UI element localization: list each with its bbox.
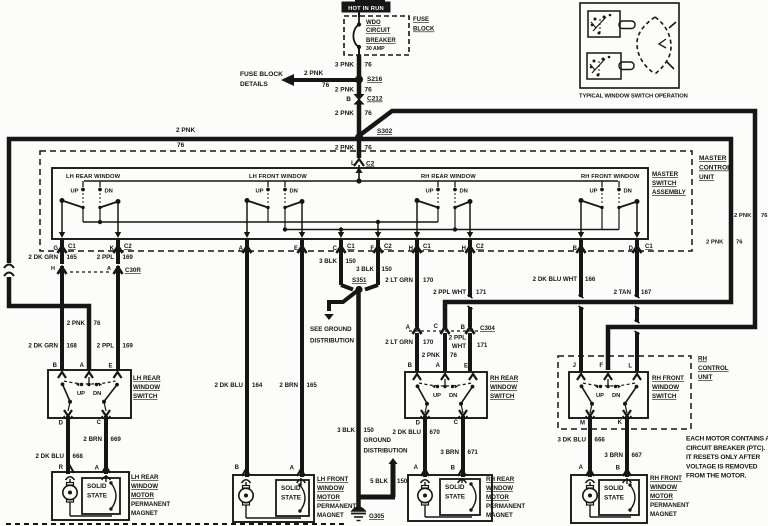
svg-text:150: 150 [397,478,408,485]
splice S302 [355,128,393,142]
svg-text:D: D [629,246,634,252]
solid state module LH rear window [82,475,120,514]
label MASTER SWITCH ASSEMBLY [652,171,687,196]
svg-text:K: K [110,246,115,252]
svg-text:G305: G305 [369,513,385,520]
svg-text:A: A [290,466,295,472]
svg-text:30 AMP: 30 AMP [366,46,385,52]
label MASTER CONTROL UNIT [699,155,731,181]
node feed junction [356,178,361,183]
svg-text:SEE GROUND: SEE GROUND [310,326,352,333]
wire 2 BRN 669 [83,416,121,474]
svg-text:MOTOR: MOTOR [317,494,340,501]
note text each motor contains a circuit breaker [686,436,768,480]
svg-text:R: R [59,465,64,471]
svg-text:F: F [599,363,603,369]
svg-text:D: D [416,421,421,427]
LH rear window switch pins D C [59,420,102,427]
svg-text:SOLID: SOLID [281,485,301,492]
wire 2 DK GRN 168 to LH rear switch pin B [28,274,77,371]
LH front window motor box [233,475,314,522]
svg-text:UP: UP [425,189,433,195]
svg-text:MAGNET: MAGNET [650,511,677,518]
svg-text:L: L [628,364,632,370]
wire 2 DK BLU 668 [35,416,83,474]
svg-text:B: B [616,466,621,472]
svg-text:SOLID: SOLID [87,483,107,490]
label 2 PNK 76 feed to LH rear switch pin A [67,320,101,327]
svg-text:2 PNK: 2 PNK [734,213,752,219]
svg-text:MASTER: MASTER [652,171,679,178]
svg-text:VOLTAGE IS REMOVED: VOLTAGE IS REMOVED [686,463,758,470]
svg-text:UNIT: UNIT [698,374,713,381]
svg-text:WINDOW: WINDOW [317,485,344,492]
wire 2 PPL 169 to LH rear switch pin E [97,274,134,371]
svg-text:J: J [573,363,576,369]
wire 2 BRN 165 from pin E to LH front motor [279,254,317,477]
svg-text:A: A [414,465,419,471]
svg-text:C2: C2 [124,244,132,250]
svg-text:GROUND: GROUND [364,437,392,444]
connector C2 pin L feed into master switch [351,140,375,181]
svg-text:DN: DN [460,189,468,195]
master pin D C1 [629,239,654,256]
svg-text:2 DK BLU: 2 DK BLU [35,453,64,460]
svg-text:2 TAN: 2 TAN [614,289,632,296]
svg-text:2 PNK: 2 PNK [304,70,323,77]
svg-text:S216: S216 [367,76,383,83]
svg-text:150: 150 [346,258,357,265]
wire 2 PNK 76 to RH rear switch pin A [422,333,458,371]
master pin K C2 [110,239,133,256]
master pin H C2 [462,239,485,256]
svg-text:B: B [408,363,413,369]
wire from HOT IN RUN to fuse block [358,12,360,17]
svg-text:76: 76 [94,320,101,327]
svg-text:2 PPL: 2 PPL [97,254,114,261]
svg-text:A: A [80,363,85,369]
power feed tag HOT IN RUN [342,0,390,12]
svg-text:150: 150 [382,266,393,273]
svg-text:76: 76 [365,145,373,152]
label 2 PNK 76 on left band [176,127,195,149]
ground bus A inside master switch [83,221,438,223]
label RH REAR WINDOW MOTOR PERMANENT MAGNET [486,476,525,519]
RH rear window switch pins D C [416,420,459,427]
svg-text:CIRCUIT BREAKER (PTC).: CIRCUIT BREAKER (PTC). [686,445,765,452]
scan artifact bottom dashed line [6,523,345,525]
svg-text:165: 165 [67,254,78,261]
arrow SEE GROUND DISTRIBUTION [310,291,357,345]
splice S351 [352,277,367,293]
svg-text:2 BRN: 2 BRN [83,436,102,443]
LH front window motor pins B A [235,465,306,483]
svg-text:L: L [351,160,355,167]
svg-text:DISTRIBUTION: DISTRIBUTION [310,338,355,345]
svg-text:C: C [454,420,459,426]
svg-text:WDO: WDO [366,20,381,26]
svg-text:MOTOR: MOTOR [131,492,154,499]
svg-text:IT RESETS ONLY AFTER: IT RESETS ONLY AFTER [686,454,760,461]
svg-text:C30R: C30R [125,267,141,274]
svg-text:76: 76 [736,240,743,246]
svg-text:168: 168 [67,343,78,350]
svg-text:EACH MOTOR CONTAINS A: EACH MOTOR CONTAINS A [686,436,768,443]
master pin E [294,239,307,256]
ground drop to pin F C2 [375,220,381,238]
svg-text:WHT: WHT [452,343,466,350]
svg-text:169: 169 [123,343,134,350]
svg-text:STATE: STATE [281,495,302,502]
svg-text:PERMANENT: PERMANENT [650,502,689,509]
wire 2 DK BLU WHT 166 from pin B to RH front switch pin J [533,254,596,371]
svg-text:C2: C2 [476,244,484,250]
master pin G C1 [53,239,76,256]
RH front window switch contacts [580,379,639,419]
svg-text:A: A [406,325,411,331]
svg-text:FUSE BLOCK: FUSE BLOCK [240,71,283,78]
svg-text:76: 76 [365,110,373,117]
svg-text:MOTOR: MOTOR [650,493,673,500]
svg-text:3 BLK: 3 BLK [356,266,374,273]
svg-text:H: H [409,246,413,252]
svg-text:DETAILS: DETAILS [240,81,268,88]
RH rear window switch box [405,372,487,418]
master pin H C1 [409,239,432,256]
label LH REAR WINDOW SWITCH [133,375,161,400]
svg-text:F: F [370,246,374,252]
svg-text:RH REAR: RH REAR [486,476,515,483]
arrow to FUSE BLOCK DETAILS [240,70,356,89]
svg-text:B: B [573,246,578,252]
wire 2 PNK 76 inner band feed to C304 [359,139,731,329]
svg-text:2 PNK: 2 PNK [335,110,354,117]
LH rear window switch pins B A E [53,363,122,378]
svg-text:HOT IN RUN: HOT IN RUN [348,6,384,12]
svg-text:A: A [579,465,584,471]
svg-text:MOTOR: MOTOR [486,494,509,501]
svg-text:2 PNK: 2 PNK [67,320,86,327]
svg-text:CONTROL: CONTROL [699,165,731,172]
svg-text:666: 666 [595,437,606,444]
ground drop to pin C C1 [338,227,344,238]
svg-text:C1: C1 [645,244,653,250]
svg-text:A: A [107,266,111,272]
motor M symbol RH rear window [418,480,472,517]
wire 2 TAN 167 from pin D to RH front switch pin L [614,254,652,371]
svg-text:669: 669 [111,436,122,443]
svg-text:3 BLK: 3 BLK [337,427,355,434]
svg-text:STATE: STATE [445,494,466,501]
svg-text:2 PPL: 2 PPL [449,335,466,342]
RH front window motor pins A B [579,465,632,483]
svg-text:76: 76 [365,87,373,94]
svg-text:171: 171 [476,289,487,296]
switch RH front window in master assembly [578,174,640,238]
wire 2 PNK 76 left band feed to LH rear window switch [4,139,357,370]
RH front window switch pins J F L [573,363,641,380]
svg-text:WINDOW: WINDOW [650,484,677,491]
master control unit dashed box [40,151,692,251]
wire 3 BLK 150 from pin C [319,254,356,290]
wire 3 BRN 667 [604,416,642,477]
label LH FRONT WINDOW MOTOR PERMANENT MAGNET [317,476,356,519]
svg-text:DN: DN [449,393,457,399]
wire 3 BRN 671 [440,416,478,477]
svg-text:E: E [108,364,112,370]
svg-text:2 PPL WHT: 2 PPL WHT [433,289,466,296]
svg-text:2 PPL: 2 PPL [97,343,114,350]
wire 2 DK GRN 165 from pin G [28,254,77,264]
svg-text:667: 667 [632,452,643,459]
RH front window switch box [569,372,648,418]
svg-text:164: 164 [252,382,263,389]
svg-text:165: 165 [307,382,318,389]
typical window switch operation illustration [580,3,679,88]
motor M symbol LH rear window [63,477,112,516]
svg-text:PERMANENT: PERMANENT [317,503,356,510]
svg-text:C304: C304 [480,325,495,332]
wire 2 LT GRN 170 to RH rear switch pin B [385,333,434,371]
label 2 PNK 76 above master box [335,145,372,152]
wire 2 PNK 76 outer band feed to RH front window switch [360,111,755,370]
wire 2 DK BLU 164 from pin A to LH front motor [214,254,262,477]
svg-text:2 BRN: 2 BRN [279,382,298,389]
splice S216 [355,76,383,84]
svg-text:ASSEMBLY: ASSEMBLY [652,189,687,196]
svg-text:UP: UP [70,189,78,195]
svg-text:2 PNK: 2 PNK [335,87,354,94]
master switch assembly box [52,168,648,239]
svg-text:RH REAR WINDOW: RH REAR WINDOW [421,174,476,180]
svg-text:2 PNK: 2 PNK [176,127,195,134]
svg-text:2 DK BLU: 2 DK BLU [214,382,243,389]
master pin C C1 [333,239,356,256]
RH rear window switch pins B A E [408,363,477,380]
svg-text:166: 166 [585,276,596,283]
svg-text:C212: C212 [367,96,383,103]
svg-text:UP: UP [433,393,441,399]
RH front window motor box [571,475,647,523]
svg-text:C1: C1 [68,244,76,250]
svg-text:DN: DN [105,189,113,195]
svg-text:A: A [436,363,441,369]
svg-text:LH REAR WINDOW: LH REAR WINDOW [66,174,121,180]
svg-text:167: 167 [641,289,652,296]
svg-text:B: B [461,325,466,331]
svg-text:SWITCH: SWITCH [652,180,677,187]
svg-text:WINDOW: WINDOW [131,483,158,490]
circuit breaker WDO CIRCUIT BREAKER 30 AMP [353,16,396,55]
svg-text:2 LT GRN: 2 LT GRN [385,277,413,284]
master pin B [573,239,586,256]
svg-text:DN: DN [624,189,632,195]
svg-text:2 DK BLU: 2 DK BLU [392,429,421,436]
svg-text:2 PNK: 2 PNK [335,145,354,152]
motor M symbol LH front window [239,480,301,518]
svg-text:MAGNET: MAGNET [317,512,344,519]
svg-text:169: 169 [123,254,134,261]
label RH FRONT WINDOW SWITCH [652,375,684,400]
svg-text:E: E [464,364,468,370]
svg-text:K: K [618,420,623,426]
svg-text:SWITCH: SWITCH [490,393,515,400]
svg-text:DN: DN [93,391,101,397]
LH rear window motor pins R A [59,465,111,480]
svg-text:2 DK GRN: 2 DK GRN [28,254,58,261]
connector C30R [51,266,141,276]
RH front window switch pins M K [580,420,623,427]
RH rear window switch contacts [416,379,475,419]
svg-text:UP: UP [255,189,263,195]
svg-text:CIRCUIT: CIRCUIT [366,28,391,34]
wire 2 PPL 169 from pin K [97,254,134,264]
wire 3 BLK 150 from pin F [356,254,392,290]
svg-text:3 BRN: 3 BRN [440,449,459,456]
wire 3 PNK 76 feed [357,55,362,77]
solid state module RH rear window [440,478,480,515]
svg-text:DN: DN [612,393,620,399]
label FUSE BLOCK [413,17,435,33]
RH rear window motor box [408,475,492,521]
svg-text:3 BLK: 3 BLK [319,258,337,265]
svg-text:RH FRONT: RH FRONT [652,375,684,382]
wire 2 LT GRN 170 from pin H C1 [385,254,434,327]
svg-text:C: C [333,246,338,252]
svg-text:TYPICAL WINDOW SWITCH OPERATIO: TYPICAL WINDOW SWITCH OPERATION [579,94,688,100]
master pin A [239,239,252,256]
connector C212 pin B [346,94,383,105]
wire 3 DK BLU 666 [557,416,605,477]
svg-text:671: 671 [468,449,479,456]
svg-text:SWITCH: SWITCH [133,393,158,400]
wire 3 BLK 150 ground to G305 [337,289,408,507]
svg-text:SOLID: SOLID [445,484,465,491]
RH rear window motor pins A B [414,465,467,483]
svg-text:SOLID: SOLID [604,485,624,492]
svg-text:C2: C2 [366,161,375,168]
label LH REAR WINDOW MOTOR PERMANENT MAGNET [131,474,170,517]
svg-text:C1: C1 [423,244,431,250]
svg-text:FUSE: FUSE [413,17,429,23]
svg-text:WINDOW: WINDOW [133,384,160,391]
svg-text:S351: S351 [352,277,367,284]
svg-text:76: 76 [450,352,457,359]
svg-text:76: 76 [322,82,330,89]
svg-text:170: 170 [423,277,434,284]
svg-text:G: G [53,246,58,252]
svg-text:B: B [451,466,456,472]
svg-text:RH REAR: RH REAR [490,375,519,382]
svg-text:STATE: STATE [87,493,108,500]
ground G305 [351,507,385,521]
svg-text:2 PNK: 2 PNK [706,240,724,246]
svg-text:FROM THE MOTOR.: FROM THE MOTOR. [686,473,747,480]
svg-text:UP: UP [596,393,604,399]
svg-text:H: H [51,266,55,272]
svg-text:170: 170 [423,339,434,346]
wire 2 PNK 76 between S216 and C212 [357,80,362,96]
switch LH front window in master assembly [244,174,307,238]
svg-text:2 PNK: 2 PNK [422,352,441,359]
svg-text:PERMANENT: PERMANENT [131,501,170,508]
LH rear window motor box [52,472,129,520]
svg-text:5 BLK: 5 BLK [370,478,388,485]
svg-text:MAGNET: MAGNET [486,512,513,519]
svg-text:H: H [462,246,466,252]
master pin F C2 [370,239,392,256]
svg-text:SWITCH: SWITCH [652,393,677,400]
label 2 PNK 76 on outer band right [734,213,768,219]
LH rear window switch box [48,370,131,418]
svg-text:150: 150 [364,427,375,434]
svg-text:668: 668 [73,453,84,460]
svg-text:C1: C1 [347,244,355,250]
svg-text:UP: UP [589,189,597,195]
svg-text:76: 76 [365,62,373,69]
svg-text:RH FRONT: RH FRONT [650,475,682,482]
svg-text:A: A [239,246,244,252]
svg-text:WINDOW: WINDOW [652,384,679,391]
switch RH rear window in master assembly [414,174,476,238]
svg-text:BLOCK: BLOCK [413,27,435,33]
svg-text:RH: RH [698,356,707,363]
svg-text:D: D [59,421,64,427]
svg-text:STATE: STATE [604,495,625,502]
wire 2 PNK 76 between C212 and S302 [357,103,362,136]
label RH CONTROL UNIT [698,356,729,382]
svg-text:MASTER: MASTER [699,155,727,162]
svg-text:M: M [580,421,585,427]
svg-text:2 DK BLU WHT: 2 DK BLU WHT [533,276,578,283]
svg-text:S302: S302 [377,128,393,135]
feed bus inside master switch [84,180,618,182]
svg-text:B: B [53,363,58,369]
svg-text:E: E [294,246,298,252]
svg-text:C2: C2 [384,244,392,250]
svg-text:PERMANENT: PERMANENT [486,503,525,510]
wire 2 PPL WHT 171 from pin H C2 [433,254,487,327]
svg-text:A: A [95,466,100,472]
svg-text:DISTRIBUTION: DISTRIBUTION [364,448,409,455]
svg-text:76: 76 [761,213,768,219]
svg-text:LH REAR: LH REAR [131,474,159,481]
svg-text:UNIT: UNIT [699,174,714,181]
RH control unit dashed box [558,356,691,429]
svg-text:MAGNET: MAGNET [131,510,158,517]
fuse block dashed box [344,16,409,55]
svg-text:B: B [235,465,240,471]
svg-text:76: 76 [177,142,185,149]
svg-text:CONTROL: CONTROL [698,365,729,372]
solid state module LH front window [276,478,309,516]
svg-text:171: 171 [477,342,488,349]
svg-text:LH FRONT: LH FRONT [317,476,348,483]
connector C304 [406,324,496,334]
svg-text:LH FRONT WINDOW: LH FRONT WINDOW [249,174,307,180]
switch LH rear window in master assembly [59,174,121,238]
ground bus B inside master switch [285,229,619,231]
label RH FRONT WINDOW MOTOR PERMANENT MAGNET [650,475,689,518]
svg-text:670: 670 [430,429,441,436]
svg-text:WINDOW: WINDOW [490,384,517,391]
svg-text:2 LT GRN: 2 LT GRN [385,339,413,346]
svg-text:BREAKER: BREAKER [366,38,396,44]
svg-text:2 DK GRN: 2 DK GRN [28,343,58,350]
wire 2 PPL WHT 171 to RH rear switch pin E [449,333,488,371]
svg-text:UP: UP [77,391,85,397]
LH rear window switch contacts [61,377,119,419]
